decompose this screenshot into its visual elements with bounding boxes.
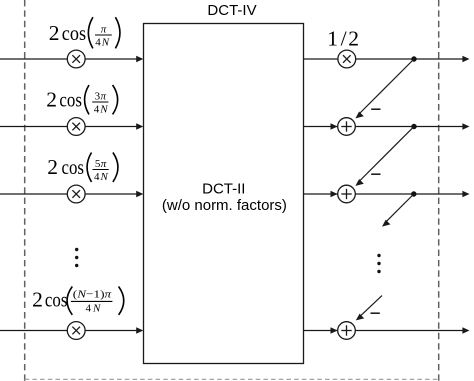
svg-text:2: 2 bbox=[348, 27, 359, 51]
DCT-II box bbox=[144, 24, 304, 364]
wire output row 2 bbox=[304, 126, 464, 128]
vertical ellipsis right outputs bbox=[377, 254, 380, 273]
svg-text:cos: cos bbox=[59, 88, 82, 112]
svg-text:2: 2 bbox=[32, 287, 43, 311]
wire input row 4 bbox=[0, 330, 137, 332]
svg-text:5π: 5π bbox=[95, 158, 107, 170]
multiplier half row 1 bbox=[338, 50, 356, 68]
wire input row 3 bbox=[0, 193, 137, 195]
wire input row 1 bbox=[0, 58, 137, 60]
adder A4 row 4 bbox=[338, 322, 356, 340]
svg-text:4N: 4N bbox=[95, 37, 110, 49]
minus sign row 4 bbox=[371, 312, 380, 314]
svg-text:/: / bbox=[341, 27, 347, 51]
wire input row 2 bbox=[0, 126, 137, 128]
adder A3 row 3 bbox=[338, 185, 356, 203]
svg-text:2: 2 bbox=[49, 21, 60, 45]
arrowhead output row 3 bbox=[462, 191, 469, 197]
arrowhead into adder row 3 bbox=[331, 191, 338, 197]
dashed boundary line left bbox=[24, 0, 26, 381]
wire output row 4 bbox=[304, 330, 464, 332]
arrowhead output row 4 bbox=[462, 327, 469, 333]
arrowhead output row 2 bbox=[462, 123, 469, 129]
svg-text:DCT-II: DCT-II bbox=[202, 181, 245, 198]
truncated diagonal from row3 node bbox=[386, 194, 414, 222]
node dot row 1 bbox=[411, 56, 416, 61]
arrowhead into box row 4 bbox=[136, 327, 143, 333]
svg-text:3π: 3π bbox=[95, 91, 107, 103]
feedback diagonal row1 to adder row2 bbox=[360, 59, 415, 114]
truncated diagonal into adder row 4 bbox=[360, 296, 382, 317]
minus sign row 3 bbox=[371, 173, 380, 175]
dashed boundary line right bbox=[438, 0, 440, 381]
wire output row 1 bbox=[304, 58, 464, 60]
svg-text:(N−1)π: (N−1)π bbox=[73, 288, 112, 300]
arrowhead into box row 2 bbox=[136, 123, 143, 129]
svg-text:(w/o norm. factors): (w/o norm. factors) bbox=[162, 197, 287, 214]
node dot row 2 bbox=[411, 124, 416, 129]
arrowhead into box row 3 bbox=[136, 191, 143, 197]
vertical ellipsis left inputs bbox=[75, 248, 78, 267]
svg-text:2: 2 bbox=[46, 88, 57, 112]
multiplier X4 row 4 bbox=[67, 322, 85, 340]
gain label 2cos(5pi/4N) row 3 bbox=[47, 153, 118, 184]
svg-text:2: 2 bbox=[47, 155, 58, 179]
adder A2 row 2 bbox=[338, 118, 356, 136]
multiplier X2 row 2 bbox=[67, 118, 85, 136]
feedback diagonal row2 to adder row3 bbox=[360, 127, 415, 182]
multiplier X3 row 3 bbox=[67, 185, 85, 203]
svg-text:4N: 4N bbox=[86, 302, 102, 314]
svg-text:cos: cos bbox=[62, 21, 86, 45]
svg-text:cos: cos bbox=[62, 155, 85, 179]
node dot row 3 bbox=[411, 191, 416, 196]
svg-text:π: π bbox=[101, 24, 107, 36]
arrowhead into adder row 2 bbox=[331, 123, 338, 129]
svg-text:1: 1 bbox=[327, 27, 338, 51]
label 1/2 bbox=[327, 27, 359, 51]
dashed boundary line bottom bbox=[25, 378, 439, 380]
wire output row 3 bbox=[304, 193, 464, 195]
arrowhead into box row 1 bbox=[136, 56, 143, 62]
svg-text:DCT-IV: DCT-IV bbox=[207, 2, 256, 19]
svg-text:4N: 4N bbox=[94, 171, 109, 183]
svg-text:cos: cos bbox=[45, 287, 68, 311]
svg-text:4N: 4N bbox=[94, 104, 109, 116]
minus sign row 2 bbox=[371, 108, 380, 110]
multiplier X1 row 1 bbox=[67, 50, 85, 68]
gain label 2cos((N-1)pi/4N) row 4 bbox=[32, 287, 124, 315]
gain label 2cos(pi/4N) row 1 bbox=[49, 17, 120, 48]
gain label 2cos(3pi/4N) row 2 bbox=[46, 85, 117, 116]
arrowhead output row 1 bbox=[462, 56, 469, 62]
arrowhead into adder row 4 bbox=[331, 327, 338, 333]
